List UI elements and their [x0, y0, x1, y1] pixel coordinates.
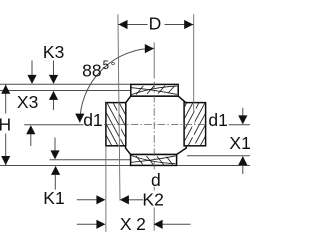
88.5 degree dimension arc	[80, 48, 154, 122]
K2 left-arrow (tip x=119)	[120, 195, 143, 204]
svg-text:K2: K2	[142, 189, 163, 209]
vertical extension line D-right (x=193.7)	[193, 14, 195, 113]
X2 right-arrow (tip x=105.5)	[77, 220, 106, 229]
svg-text:d1: d1	[208, 110, 227, 130]
run axis extension right	[229, 124, 251, 126]
svg-text:X1: X1	[229, 133, 250, 153]
K3 down-arrow (x=53.5, tip y=84.3)	[49, 61, 58, 84]
K1 bottom reference line (y=159.8)	[50, 159, 132, 161]
K2 right-arrow (tip x=105.5)	[77, 195, 106, 204]
K3 up-arrow (x=53.5, tip y=90.5)	[49, 91, 58, 110]
dimension reference line K3 top (y=84.3)	[0, 83, 132, 85]
X2 left-arrow (tip x=153.9)	[154, 220, 191, 229]
arc arrow at run axis (points down)	[75, 114, 84, 123]
dimension D line	[118, 20, 194, 29]
svg-text:d1: d1	[83, 110, 102, 130]
vertical extension line branch axis at X2 row (x=154.2)	[153, 208, 155, 231]
right socket spigot d1	[132, 101, 224, 148]
bottom reference line full width (y=165.5)	[0, 165, 250, 167]
run axis centerline (horizontal dash-dot)	[104, 123, 206, 125]
vertical extension line D-left / K2 (x=118.6)	[118, 14, 120, 200]
branch axis centerline (vertical)	[153, 42, 155, 78]
svg-text:X2: X2	[120, 214, 150, 234]
svg-text:K1: K1	[43, 188, 64, 208]
svg-text:X3: X3	[17, 92, 38, 112]
X3 up-arrow at run axis (x=30.8, tip y=124.7)	[26, 125, 35, 146]
dimension reference line X3 (y=90.5)	[0, 90, 132, 92]
arc arrow at branch axis (points right)	[145, 44, 154, 53]
bottom socket d	[131, 155, 177, 166]
svg-text:D: D	[149, 14, 162, 34]
top socket D	[131, 84, 178, 96]
vertical extension line left socket face (x=105.9)	[105, 146, 107, 232]
K1 down-arrow (x=55, tip y=159.8)	[50, 138, 59, 160]
K1 up-arrow (x=55.6, tip y=165.5)	[51, 166, 60, 190]
X3 upper down-arrow (x=32, tip y=84.3)	[27, 61, 36, 84]
H dimension line with arrows	[1, 84, 10, 165]
X1 down-arrow at run axis (x=242.8)	[238, 108, 247, 125]
svg-text:H: H	[0, 114, 11, 134]
run axis extension left	[24, 124, 83, 126]
central body octagon	[126, 96, 187, 154]
X1 up-arrow (tip y=155.7)	[238, 156, 247, 174]
svg-text:K3: K3	[43, 42, 64, 62]
left socket spigot d1	[88, 101, 180, 148]
svg-text:d: d	[151, 170, 161, 190]
X1 reference line right (y=155.7)	[187, 155, 250, 157]
